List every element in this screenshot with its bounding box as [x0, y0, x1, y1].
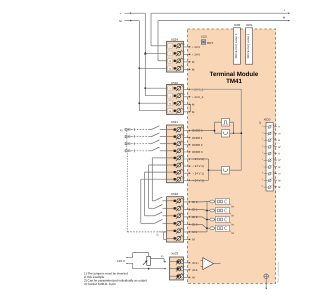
DRIVE-CLiQ socket X500	[233, 23, 240, 64]
svg-text:+ 24 V_2: + 24 V_2	[192, 95, 204, 99]
svg-text:M: M	[169, 102, 171, 105]
wire M loop-through out (X524 pin 3 to right arrow)	[158, 16, 290, 60]
wire M supply in (left arrow, down to X524 and X516)	[119, 20, 166, 111]
svg-text:7: 7	[184, 170, 185, 173]
X524 terminal outputs +24V +24V M M	[176, 43, 200, 72]
svg-text:+ 24 V: + 24 V	[192, 53, 200, 57]
svg-text:3: 3	[184, 141, 185, 144]
Terminal Module TM41 body (dashed orange block)	[188, 29, 276, 284]
svg-text:4: 4	[262, 144, 263, 147]
svg-text:4: 4	[184, 221, 185, 224]
svg-text:M: M	[169, 110, 171, 113]
M rail between X516 M rows	[190, 104, 192, 112]
DI/DO 0 output gate block	[215, 130, 243, 138]
svg-text:3: 3	[184, 213, 185, 216]
connector X516 (power supply 2)	[167, 81, 186, 114]
svg-text:X524: X524	[171, 37, 178, 41]
svg-text:Terminal Module: Terminal Module	[210, 71, 259, 78]
svg-text:3): 3)	[259, 122, 261, 125]
external switches with jumpers on DI/DO inputs (footnote 1)	[120, 126, 167, 153]
svg-text:R: R	[278, 153, 280, 156]
svg-text:TM41_anschluss.vsd: TM41_anschluss.vsd	[277, 262, 280, 283]
svg-text:7: 7	[262, 165, 263, 168]
svg-text:4: 4	[184, 108, 185, 111]
svg-text:4: 4	[184, 148, 185, 151]
connector X521 (DI/DO and +24V terminals)	[167, 120, 186, 183]
op-amp analog input buffer	[201, 258, 221, 270]
+24V internal rail to DI/DO output bus	[191, 89, 242, 170]
footnotes	[84, 271, 147, 286]
svg-text:AI 0-: AI 0-	[192, 268, 198, 272]
svg-text:M: M	[232, 223, 234, 226]
connector X524 (electronics power supply)	[167, 37, 186, 72]
svg-text:1: 1	[184, 127, 185, 130]
svg-text:1): 1)	[156, 234, 158, 237]
dashed jumper wire from DI/DO jumpers to X522 M1 (footnote 1)	[127, 151, 166, 240]
wire +24V supply in (left arrow, down to X524 and X516)	[120, 12, 167, 95]
connector X523 (analog input)	[170, 252, 189, 280]
svg-text:+ 24 V: + 24 V	[192, 45, 200, 49]
svg-text:RDY: RDY	[207, 41, 213, 45]
protective earth / chassis ground	[264, 274, 269, 290]
svg-text:±10 V: ±10 V	[117, 259, 125, 263]
svg-text:M: M	[232, 205, 234, 208]
svg-text:5: 5	[184, 155, 185, 158]
svg-text:M: M	[169, 67, 171, 70]
svg-text:4: 4	[184, 66, 185, 69]
svg-text:M: M	[232, 232, 234, 235]
svg-text:M: M	[278, 186, 280, 189]
svg-text:3: 3	[262, 138, 263, 141]
svg-text:X501: X501	[246, 23, 253, 27]
svg-text:3: 3	[184, 58, 185, 61]
connector X522 (digital inputs DI 0-3, M1, M)	[167, 192, 186, 242]
svg-text:X521: X521	[171, 120, 178, 124]
svg-text:2: 2	[184, 134, 185, 137]
svg-text:DI/DO 1: DI/DO 1	[192, 136, 203, 140]
svg-text:R*: R*	[278, 159, 281, 162]
svg-text:DI/DO 3: DI/DO 3	[192, 150, 203, 154]
svg-text:3) Socket SUB-D, 9-pin: 3) Socket SUB-D, 9-pin	[84, 282, 116, 286]
svg-text:A*: A*	[278, 173, 281, 176]
potentiometer example circuit ±10V	[117, 253, 166, 270]
LED legend RDY	[201, 35, 213, 45]
svg-text:1: 1	[184, 43, 185, 46]
X523 terminal arrows and labels AI0+ AI0- M	[176, 259, 199, 280]
svg-text:1: 1	[187, 259, 188, 262]
svg-text:2: 2	[184, 93, 185, 96]
svg-text:8: 8	[184, 177, 185, 180]
svg-text:A*: A*	[278, 132, 281, 135]
svg-text:X500: X500	[234, 23, 241, 27]
svg-text:1: 1	[184, 198, 185, 201]
svg-text:1): 1)	[120, 129, 122, 132]
svg-text:3: 3	[184, 101, 185, 104]
svg-text:1: 1	[184, 86, 185, 89]
vertical figure id text	[277, 262, 280, 283]
svg-text:5: 5	[184, 228, 185, 231]
svg-text:+ 24 V 1): + 24 V 1)	[192, 164, 204, 168]
digital input stages with optocouplers (DI 0-3)	[191, 199, 234, 236]
svg-text:X523: X523	[171, 252, 178, 256]
svg-text:M: M	[278, 166, 280, 169]
svg-text:DRIVE-CLiQ socket 1: DRIVE-CLiQ socket 1	[247, 33, 250, 58]
X522 terminal arrows and labels	[176, 198, 198, 242]
svg-text:8: 8	[262, 171, 263, 174]
svg-text:B*: B*	[278, 146, 281, 149]
svg-text:6: 6	[184, 236, 185, 239]
svg-text:1): 1)	[161, 255, 163, 258]
svg-text:10: 10	[261, 185, 263, 188]
svg-text:2: 2	[184, 51, 185, 54]
M rail of input stages	[191, 202, 208, 232]
svg-text:1: 1	[262, 124, 263, 127]
DRIVE-CLiQ socket X501	[246, 23, 253, 64]
wires from X521 +24V terminals through switches to X522 digital inputs	[141, 158, 167, 223]
svg-text:TM41: TM41	[226, 78, 242, 85]
svg-text:LED: LED	[201, 35, 208, 39]
svg-text:2: 2	[184, 206, 185, 209]
+24V group bracket and gate block	[191, 159, 242, 180]
X521 terminal arrows and labels	[176, 127, 204, 183]
svg-text:9: 9	[262, 178, 263, 181]
svg-text:2: 2	[187, 266, 188, 269]
svg-text:6: 6	[184, 162, 185, 165]
connector X520 encoder signal output (SUB-D socket)	[259, 118, 281, 192]
module title Terminal Module TM41	[210, 71, 259, 85]
svg-text:B*: B*	[278, 179, 281, 182]
wire +24V loop-through out (X524 pin 1 to right arrow)	[151, 9, 290, 46]
svg-text:X522: X522	[171, 192, 178, 196]
svg-text:AI 0+: AI 0+	[192, 261, 199, 265]
svg-text:M: M	[232, 214, 234, 217]
svg-text:6: 6	[262, 158, 263, 161]
svg-text:+ 24 V 1): + 24 V 1)	[192, 171, 204, 175]
DI/DO 0 function block (pulse shaper)	[191, 119, 234, 134]
svg-text:DRIVE-CLiQ socket 0: DRIVE-CLiQ socket 0	[235, 33, 238, 58]
X516 terminal outputs	[176, 85, 204, 114]
svg-text:5: 5	[262, 151, 263, 154]
svg-text:DI/DO 2: DI/DO 2	[192, 143, 203, 147]
svg-text:2: 2	[262, 131, 263, 134]
svg-text:X520: X520	[264, 118, 271, 122]
svg-text:M: M	[169, 60, 171, 63]
svg-text:3: 3	[187, 274, 188, 277]
